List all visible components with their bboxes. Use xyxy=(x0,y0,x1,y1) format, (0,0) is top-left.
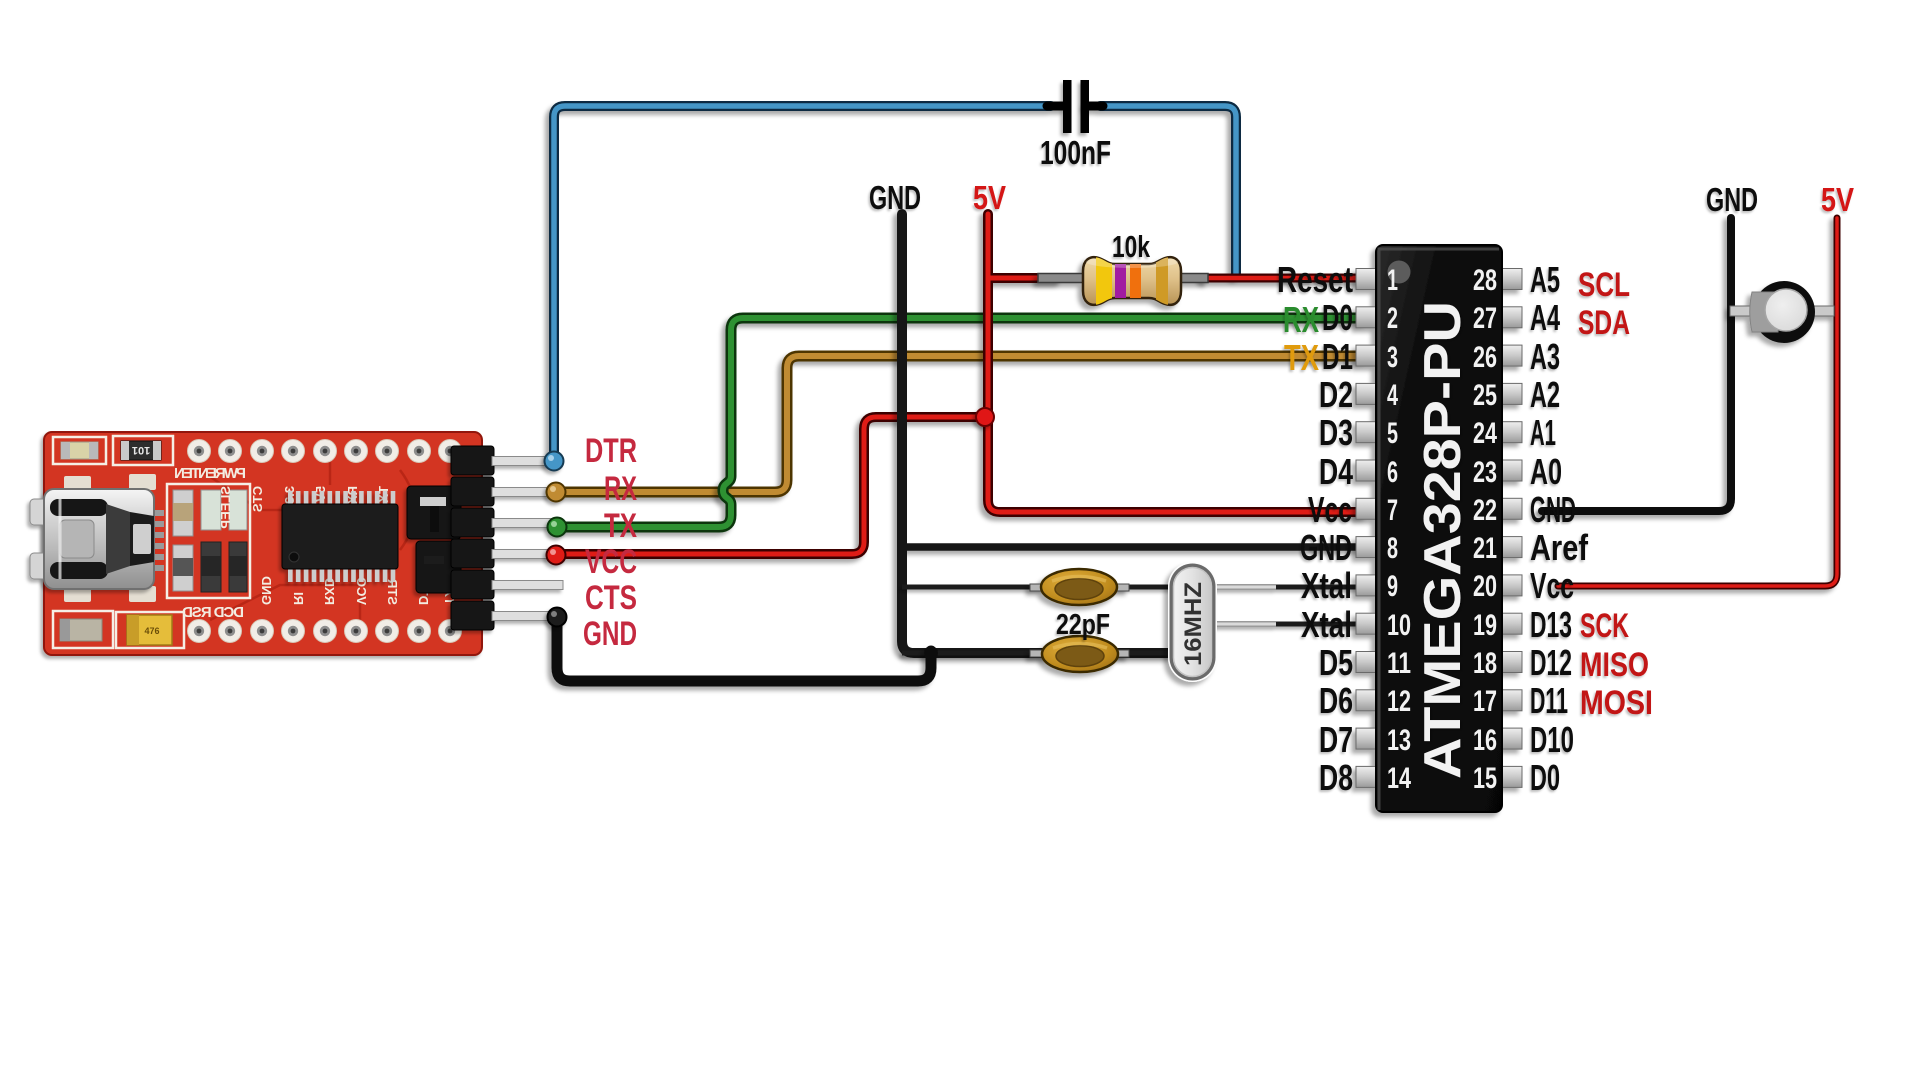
svg-text:SDA: SDA xyxy=(1578,304,1630,342)
svg-text:RI: RI xyxy=(291,592,306,605)
svg-text:D13: D13 xyxy=(1530,604,1572,645)
svg-text:25: 25 xyxy=(1473,379,1497,412)
wire: crystal lead pin10 xyxy=(1192,622,1364,627)
svg-text:A5: A5 xyxy=(1530,259,1560,300)
svg-text:10k: 10k xyxy=(1112,229,1151,264)
svg-text:D4: D4 xyxy=(1319,451,1353,492)
crystal X1 16MHZ xyxy=(1168,562,1217,682)
svg-text:GND: GND xyxy=(869,179,921,216)
junction node 5V/VCC xyxy=(976,408,994,426)
svg-text:A0: A0 xyxy=(1530,451,1562,492)
capacitor C3 22pF xyxy=(1030,636,1129,672)
board through-holes xyxy=(188,440,462,643)
svg-text:12: 12 xyxy=(1387,685,1411,718)
svg-text:RX: RX xyxy=(604,470,637,508)
svg-text:D2: D2 xyxy=(1319,374,1353,415)
node RX xyxy=(547,483,566,502)
svg-text:DTR: DTR xyxy=(585,432,637,470)
svg-text:A4: A4 xyxy=(1530,297,1560,338)
svg-text:CTS: CTS xyxy=(250,486,265,512)
wire: chip Vcc20 to 5V right xyxy=(1558,218,1837,586)
node GND xyxy=(548,608,567,627)
svg-text:D11: D11 xyxy=(1530,680,1568,721)
svg-text:A1: A1 xyxy=(1530,412,1556,453)
svg-text:D3: D3 xyxy=(1319,412,1353,453)
svg-text:11: 11 xyxy=(1387,647,1411,680)
svg-text:3: 3 xyxy=(1387,341,1398,374)
wire: FTDI GND down-around xyxy=(557,617,938,681)
chip left pin labels xyxy=(1277,259,1353,798)
SMD LED xyxy=(53,437,106,464)
svg-text:Vcc: Vcc xyxy=(1530,565,1574,606)
svg-text:100nF: 100nF xyxy=(1040,134,1111,171)
svg-text:SCL: SCL xyxy=(1578,266,1630,304)
svg-text:22pF: 22pF xyxy=(1056,609,1110,641)
wire: orange RX to D1 xyxy=(558,356,1364,492)
svg-text:16: 16 xyxy=(1473,724,1497,757)
svg-text:476: 476 xyxy=(144,626,159,636)
svg-text:VCC: VCC xyxy=(585,543,637,581)
svg-text:MOSI: MOSI xyxy=(1580,684,1653,722)
chip right pin labels xyxy=(1530,259,1589,798)
svg-text:D8: D8 xyxy=(1319,757,1353,798)
silkscreen labels xyxy=(174,465,457,621)
svg-text:D6: D6 xyxy=(1319,680,1353,721)
svg-text:SLEEP: SLEEP xyxy=(218,486,233,529)
svg-text:D12: D12 xyxy=(1530,642,1572,683)
SMD resistor 101 xyxy=(113,436,173,465)
svg-text:1: 1 xyxy=(1387,264,1398,297)
svg-text:22: 22 xyxy=(1473,494,1497,527)
svg-text:STR: STR xyxy=(385,578,400,605)
svg-text:CTS: CTS xyxy=(585,579,637,617)
resistor R1 10k xyxy=(1038,252,1208,310)
svg-text:SCK: SCK xyxy=(1580,607,1629,645)
svg-text:MISO: MISO xyxy=(1580,646,1649,684)
svg-text:D0: D0 xyxy=(1530,757,1560,798)
svg-text:17: 17 xyxy=(1473,685,1497,718)
svg-text:7: 7 xyxy=(1387,494,1398,527)
svg-text:24: 24 xyxy=(1473,417,1497,450)
svg-text:GND: GND xyxy=(259,576,274,605)
svg-text:D7: D7 xyxy=(1319,719,1353,760)
svg-text:6: 6 xyxy=(1387,456,1398,489)
svg-text:14: 14 xyxy=(1387,762,1411,795)
node VCC xyxy=(547,546,566,565)
pin numbers left 1-14 xyxy=(1387,264,1411,795)
bottom-left SMD box xyxy=(53,611,113,648)
wire: red reset pull-up to pin1 xyxy=(1205,274,1364,283)
svg-text:15: 15 xyxy=(1473,762,1497,795)
FT232RL IC xyxy=(282,491,398,582)
svg-text:8: 8 xyxy=(1387,532,1398,565)
wire: chip GND22 to button GND xyxy=(1542,218,1731,511)
push button S1 xyxy=(1730,281,1834,343)
jumper block xyxy=(407,486,461,593)
wire: GND rail left xyxy=(902,214,1364,653)
svg-text:101: 101 xyxy=(132,444,150,456)
svg-text:GND: GND xyxy=(1706,181,1758,218)
svg-text:A3: A3 xyxy=(1530,336,1560,377)
wire: blue DTR to 100nF xyxy=(554,106,1236,458)
wire: 22pF cap2 branch xyxy=(902,651,1170,656)
pin numbers right 28-15 xyxy=(1473,264,1497,795)
6-pin header xyxy=(451,446,563,630)
svg-text:GND: GND xyxy=(583,615,637,653)
svg-text:20: 20 xyxy=(1473,570,1497,603)
svg-text:5V: 5V xyxy=(973,179,1006,216)
svg-text:Vcc: Vcc xyxy=(1308,489,1352,530)
svg-text:Xtal: Xtal xyxy=(1301,604,1352,645)
svg-text:D1: D1 xyxy=(1322,336,1353,377)
svg-text:26: 26 xyxy=(1473,341,1497,374)
svg-text:Aref: Aref xyxy=(1530,527,1589,568)
svg-text:RX: RX xyxy=(1283,299,1319,340)
node DTR xyxy=(545,452,564,471)
svg-text:D0: D0 xyxy=(1322,297,1353,338)
node TX xyxy=(548,518,567,537)
svg-text:GND: GND xyxy=(1300,527,1352,568)
mini-USB connector xyxy=(30,489,154,589)
wire: 5V rail left xyxy=(988,214,1364,512)
wire: red FTDI VCC feed xyxy=(558,417,985,554)
svg-text:18: 18 xyxy=(1473,647,1497,680)
svg-text:GND: GND xyxy=(1530,489,1576,530)
svg-text:21: 21 xyxy=(1473,532,1497,565)
svg-text:2: 2 xyxy=(1387,302,1398,335)
svg-text:16MHZ: 16MHZ xyxy=(1180,582,1207,666)
mid component box xyxy=(167,484,250,598)
wire: crystal lead pin9 xyxy=(902,585,1364,590)
svg-text:9: 9 xyxy=(1387,570,1398,603)
tantalum capacitor xyxy=(116,612,184,648)
svg-text:A2: A2 xyxy=(1530,374,1560,415)
capacitor C1 100nF plates xyxy=(1063,80,1089,133)
svg-text:Xtal: Xtal xyxy=(1301,565,1352,606)
capacitor C2 22pF xyxy=(1030,569,1129,605)
svg-text:PWRENTEN: PWRENTEN xyxy=(174,465,246,482)
svg-text:23: 23 xyxy=(1473,456,1497,489)
svg-text:TX: TX xyxy=(1284,337,1319,378)
wire: green TX to D0 xyxy=(558,318,1364,527)
svg-text:ATMEGA328P-PU: ATMEGA328P-PU xyxy=(1414,301,1472,779)
solder pads xyxy=(64,474,156,602)
svg-text:13: 13 xyxy=(1387,724,1411,757)
svg-text:27: 27 xyxy=(1473,302,1497,335)
pin 1 indicator dot xyxy=(1388,261,1411,284)
svg-text:5V: 5V xyxy=(1821,181,1854,218)
svg-text:10: 10 xyxy=(1387,609,1411,642)
svg-text:Reset: Reset xyxy=(1277,259,1353,300)
svg-text:TX: TX xyxy=(604,507,637,545)
svg-text:4: 4 xyxy=(1387,379,1398,412)
svg-text:D5: D5 xyxy=(1319,642,1353,683)
svg-text:28: 28 xyxy=(1473,264,1497,297)
FTDI USB-serial breakout board xyxy=(44,432,482,655)
svg-text:D10: D10 xyxy=(1530,719,1574,760)
svg-text:19: 19 xyxy=(1473,609,1497,642)
IC U1 ATMEGA328P-PU xyxy=(1356,245,1522,812)
svg-text:DCD RSD: DCD RSD xyxy=(182,604,244,621)
svg-text:5: 5 xyxy=(1387,417,1398,450)
